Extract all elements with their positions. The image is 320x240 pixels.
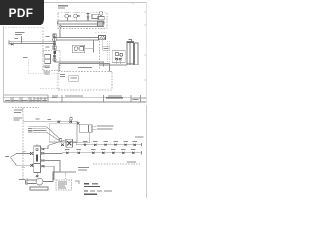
check valve on feed line [11,43,14,45]
equipment tag label box [103,47,110,51]
dashed link to panel [95,32,107,34]
pump base [30,187,48,190]
wire riser to panel [59,29,61,38]
interlock note text [78,167,89,170]
interlock signal dashed drop [65,173,67,180]
title text block sheet1 [58,5,68,8]
title block texts [5,95,139,100]
title block [4,95,146,102]
inlet valve lower [30,164,33,167]
interlock box text [58,182,67,189]
instrument stack stem [54,34,56,62]
consumers label [5,156,9,157]
feeder lines fan [33,127,60,141]
wire distribution header B [62,152,142,154]
wire cross header [55,62,110,72]
svg-text:PDF: PDF [9,6,34,20]
header B takeoffs [66,152,134,154]
instrument PI-101 [65,12,71,21]
inlet valve at controller [77,122,80,124]
vessel T-2 [134,43,138,65]
wire controller drop [89,132,91,143]
filter vessel F-1 [34,146,41,173]
relay leader labels [92,125,114,129]
package inner box [69,76,79,82]
wire pump discharge [85,40,94,53]
valve V-31 [69,121,72,123]
mixer box M-1 [66,139,73,147]
line label [78,67,92,68]
instrument TI-1 [53,38,57,42]
limit label [23,56,28,59]
equipment tag leader [101,40,103,47]
dashed battery-limit border top-left [5,28,43,56]
letdown valve group frame [112,51,125,63]
feed line end tick [8,41,10,45]
instrument TI-2 [53,58,56,61]
pump suction label [19,179,25,180]
header A tag labels [83,140,137,143]
frame ruler ticks [133,3,146,80]
dashed future-package box [58,72,112,91]
wire vessel bottom header [100,64,127,65]
valve on header [58,121,61,123]
valve V-21 [115,58,118,60]
sheet2 note text [14,110,23,113]
notes block 1 [84,183,100,187]
sample box label [44,65,51,68]
relay box [88,125,92,133]
PDF badge [0,0,44,25]
dashed tie-in line top [12,106,39,108]
dashed plot-limit vertical [99,41,101,70]
control valve CV-1 [87,13,90,21]
valve bank right of vessel [42,148,45,167]
source label [13,118,21,121]
bracket mark [75,181,79,184]
instrument FI-1 [115,52,119,56]
signal ladder pair [107,41,109,65]
controller box PC [79,125,88,133]
transmitter box [53,46,56,49]
dashed plant-limit vertical [22,108,24,180]
drain valve [36,175,39,177]
wire vessel top riser [36,145,38,147]
wire pair to equipment [56,37,99,40]
skid enclosure [49,124,77,142]
notes block 2 [84,191,112,195]
wire feed line pair [9,42,55,44]
sample box S-1 [45,55,51,59]
pump P-2 [27,172,60,185]
wire vertical drop [21,36,23,44]
wire mixer outlet [73,143,90,145]
dashed stub [15,38,19,39]
dashed stub bottom-left [40,88,60,90]
inlet valve upper [30,152,33,155]
instrument bubble at valve [70,117,73,120]
valve V-11 [53,43,56,45]
valve V-12 [53,55,56,57]
wire supply header [23,122,78,125]
consumers arrow left [10,154,30,166]
feeder labels [28,126,33,132]
dashed instrument-panel box top [58,13,107,29]
consumer line labels [23,150,27,153]
dark element [53,50,55,54]
header A takeoffs [84,144,136,146]
package label [60,74,77,78]
header A right label [135,135,144,138]
pump P-1 box [72,45,84,53]
wire main header line [58,21,105,27]
wire distribution header A [76,144,141,146]
dashed outer limit corner [29,60,60,74]
wire vessel outlets [40,145,76,180]
wire mixer inlet diagonal [48,140,66,146]
header B tag labels [65,148,136,151]
dashed signal run [93,163,140,165]
valve V-22 [119,58,122,60]
sample station dashed enclosure [43,51,60,71]
vessel T-1 [127,39,133,64]
wire vessel drain [36,173,38,176]
instrument PI-102 [74,12,80,21]
wire cluster drops [117,60,121,64]
note text left [15,32,25,35]
panel box B [98,22,104,26]
stack labels [46,36,50,47]
instrument bubble in skid [59,138,62,141]
header A end cap [141,143,143,146]
sheet 2 right frame [146,105,148,198]
signal label [127,160,136,163]
instrument PT-103 [98,12,104,20]
title block bottom border [4,101,147,103]
header B end cap [141,151,143,154]
sheet 1 frame [4,3,147,103]
sample station caption [44,72,51,75]
inlet valve to mixer [61,144,64,146]
panel box A [92,14,99,18]
instrument FI-2 [120,53,123,56]
suction side marks [26,179,28,185]
node circle left [60,26,62,28]
sample box S-2 [45,59,51,63]
line labels [36,118,40,121]
interlock dashed box [56,180,72,190]
equipment tag box hatched [99,36,106,40]
stack top box [53,34,56,37]
